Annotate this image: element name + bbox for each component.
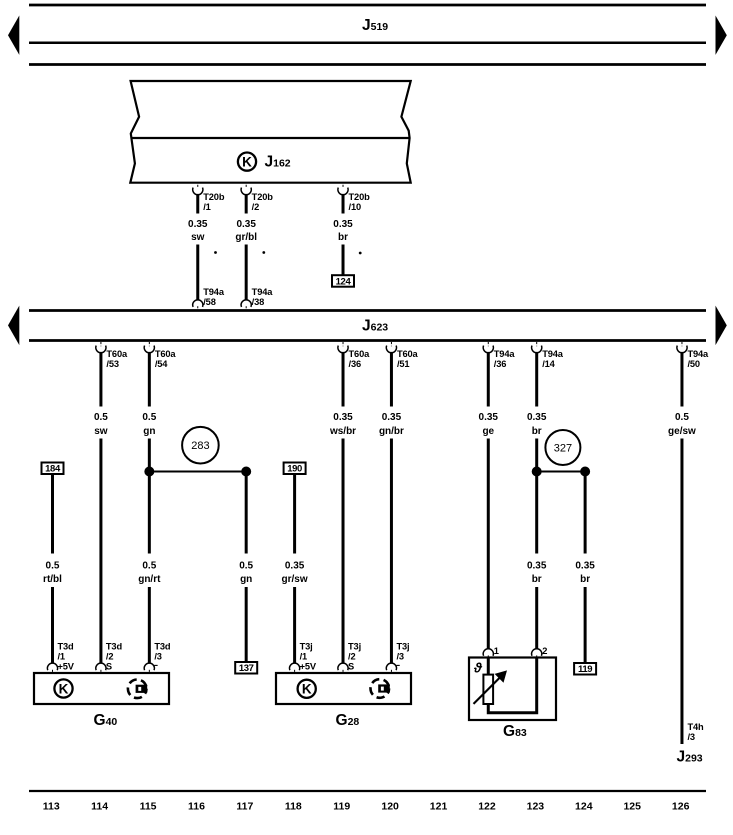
bus J519 top line xyxy=(29,4,706,7)
sensor box G83 xyxy=(469,658,556,721)
svg-text:0.5: 0.5 xyxy=(46,561,60,572)
label pin 2 xyxy=(542,646,547,656)
bus J623 top line xyxy=(29,309,706,312)
svg-text:gn/rt: gn/rt xyxy=(138,574,161,585)
svg-text:gn: gn xyxy=(240,574,252,585)
svg-text:116: 116 xyxy=(188,801,205,813)
wire spec 0.35 ge xyxy=(472,411,504,437)
connector T3d/2 at G40 xyxy=(96,663,106,672)
svg-text:T20b: T20b xyxy=(203,192,225,202)
label G40 xyxy=(94,712,118,729)
connector T3d/1 at G40 xyxy=(47,663,57,672)
wire spec 0.35 sw xyxy=(188,219,208,243)
svg-text:+5V: +5V xyxy=(300,661,317,671)
wire spec 0.35 ws/br xyxy=(327,411,359,437)
svg-text:0.35: 0.35 xyxy=(285,561,305,572)
svg-text:T60a: T60a xyxy=(349,349,371,359)
connector T60a/54 on J623 xyxy=(144,342,176,369)
svg-text:1: 1 xyxy=(494,646,499,656)
label T94a/38 xyxy=(252,287,274,307)
track numbers 113-126 xyxy=(43,801,690,813)
svg-text:gn: gn xyxy=(143,426,155,437)
wire 0.5 rt/bl segment B xyxy=(51,587,54,663)
svg-text:/53: /53 xyxy=(106,359,118,369)
svg-text:114: 114 xyxy=(91,801,108,813)
wire 0.35 sw lower segment xyxy=(196,245,199,301)
op symbol K in G40 xyxy=(54,679,72,697)
svg-text:0.5: 0.5 xyxy=(675,412,689,423)
connector T20b/1 at J162 xyxy=(193,185,203,195)
label T3d/1 +5V xyxy=(58,642,75,672)
svg-text:122: 122 xyxy=(478,801,496,813)
sensor box G40 xyxy=(34,673,169,704)
svg-text:br: br xyxy=(338,232,348,243)
svg-text:T4h: T4h xyxy=(687,722,704,732)
connector T94a/38 at J623 xyxy=(241,300,251,309)
temperature symbol theta xyxy=(473,661,483,676)
junction dot right (327) xyxy=(580,467,590,477)
connector pin2 at G83 xyxy=(532,649,542,657)
wire 0.35 gr/bl upper segment xyxy=(245,194,248,213)
svg-text:124: 124 xyxy=(336,276,352,287)
wire 0.35 br segment B xyxy=(535,439,538,472)
resistor in G83 xyxy=(483,675,493,704)
svg-text:0.5: 0.5 xyxy=(142,412,156,423)
ground connection box 137 xyxy=(235,662,257,674)
svg-text:2: 2 xyxy=(542,646,547,656)
svg-text:rt/bl: rt/bl xyxy=(43,574,62,585)
junction dot left (327) xyxy=(532,467,542,477)
label pin 1 xyxy=(494,646,499,656)
label T3d/2 S xyxy=(106,642,123,672)
wire 0.5 gn/rt segment B xyxy=(148,587,151,663)
svg-text:327: 327 xyxy=(554,443,572,455)
bottom rule xyxy=(29,790,706,792)
wire spec 0.35 br right xyxy=(569,559,601,585)
label T4h/3 xyxy=(687,722,704,742)
wire spec 0.5 gn/rt xyxy=(133,559,165,585)
wire 0.5 gn segment B xyxy=(148,439,151,472)
connector T20b/10 at J162 xyxy=(338,185,348,195)
svg-text:/3: /3 xyxy=(687,732,694,742)
svg-text:T94a: T94a xyxy=(494,349,516,359)
wire pin1 to resistor xyxy=(487,658,490,677)
wire 0.35 br segment F xyxy=(584,587,587,663)
svg-text:/58: /58 xyxy=(203,297,215,307)
ground connection box 124 xyxy=(332,275,354,287)
wire spec 0.5 gn xyxy=(133,411,165,437)
svg-text:T20b: T20b xyxy=(349,192,371,202)
left continuation arrow (J519) xyxy=(8,16,19,55)
sensor box G28 xyxy=(276,673,411,704)
wire 0.35 ws/br segment B xyxy=(342,439,345,664)
svg-text:S: S xyxy=(106,661,112,671)
svg-text:0.35: 0.35 xyxy=(236,219,256,230)
svg-text:ge/sw: ge/sw xyxy=(668,426,696,437)
svg-text:126: 126 xyxy=(672,801,690,813)
svg-text:0.5: 0.5 xyxy=(239,561,253,572)
svg-text:/3: /3 xyxy=(154,652,161,662)
connector pin1 at G83 xyxy=(483,649,493,657)
svg-text:gr/bl: gr/bl xyxy=(235,232,257,243)
label T20b/10 xyxy=(349,192,371,212)
wire 0.5 rt/bl segment A xyxy=(51,474,54,554)
label J162 xyxy=(265,153,291,170)
wire 0.35 gr/bl lower segment xyxy=(245,245,248,301)
junction wire (283) xyxy=(149,471,246,473)
connector T94a/14 on J623 xyxy=(532,342,564,369)
svg-text:0.35: 0.35 xyxy=(382,412,402,423)
svg-text:br: br xyxy=(580,574,590,585)
connector T94a/50 on J623 xyxy=(677,342,709,369)
wire 0.35 ws/br segment A xyxy=(342,352,345,406)
svg-text:ge: ge xyxy=(482,426,494,437)
wire spec 0.35 gn/br xyxy=(375,411,407,437)
svg-text:123: 123 xyxy=(527,801,545,813)
wire 0.35 sw upper segment xyxy=(196,194,199,213)
connector T60a/53 on J623 xyxy=(96,342,128,369)
wire 0.35 br segment D xyxy=(535,587,538,649)
svg-text:/36: /36 xyxy=(349,359,361,369)
svg-text:0.35: 0.35 xyxy=(575,561,595,572)
wire 0.35 ge segment B xyxy=(487,439,490,650)
connector T20b/2 at J162 xyxy=(241,185,251,195)
wire resistor to pin2 xyxy=(488,658,536,713)
svg-text:137: 137 xyxy=(239,663,254,674)
connector T60a/51 on J623 xyxy=(386,342,418,369)
sensor symbol in G28 xyxy=(371,679,390,698)
wire spec 0.5 rt/bl xyxy=(37,559,69,585)
wire spec 0.35 gr/sw xyxy=(279,559,311,585)
circle connection 283 xyxy=(182,427,219,464)
left continuation arrow (J623) xyxy=(8,306,19,346)
junction dot right (283) xyxy=(241,467,251,477)
svg-text:T3j: T3j xyxy=(348,642,361,652)
wire 0.35 br segment C xyxy=(535,472,538,554)
separator dot a xyxy=(214,251,217,254)
wire 0.5 gn segment A xyxy=(148,352,151,406)
control unit box J162 (torn-edge outline) xyxy=(130,81,410,183)
svg-text:115: 115 xyxy=(140,801,157,813)
wire 0.35 gr/sw segment B xyxy=(293,587,296,663)
svg-text:/36: /36 xyxy=(494,359,506,369)
svg-text:K: K xyxy=(242,155,252,170)
bus J623 bottom line xyxy=(29,339,706,342)
svg-text:+5V: +5V xyxy=(58,661,75,671)
svg-text:/2: /2 xyxy=(348,652,355,662)
label J623 xyxy=(362,318,388,335)
svg-text:T3d: T3d xyxy=(106,642,123,652)
label T3j/3 xyxy=(396,642,409,662)
svg-text:br: br xyxy=(532,574,542,585)
svg-text:124: 124 xyxy=(575,801,593,813)
wire 0.35 br segment A xyxy=(535,352,538,406)
svg-text:T3j: T3j xyxy=(300,642,313,652)
svg-text:T60a: T60a xyxy=(155,349,177,359)
svg-text:/14: /14 xyxy=(542,359,555,369)
wire spec 0.35 br xyxy=(333,219,353,243)
svg-text:118: 118 xyxy=(285,801,302,813)
wire 0.5 ge/sw segment A xyxy=(680,352,683,406)
svg-text:sw: sw xyxy=(191,232,205,243)
svg-text:gn/br: gn/br xyxy=(379,426,404,437)
wire 0.35 gn/br segment A xyxy=(390,352,393,406)
bus J519 bottom line xyxy=(29,63,706,66)
svg-text:/2: /2 xyxy=(106,652,113,662)
wire 0.5 gn segment C xyxy=(245,472,248,554)
svg-text:/1: /1 xyxy=(300,652,307,662)
wire spec 0.5 gn lower xyxy=(230,559,262,585)
wire 0.5 gn/rt segment A xyxy=(148,472,151,554)
op symbol K in J162 xyxy=(238,153,256,171)
svg-text:0.35: 0.35 xyxy=(188,219,208,230)
svg-text:117: 117 xyxy=(236,801,253,813)
svg-text:T20b: T20b xyxy=(252,192,274,202)
junction wire (327) xyxy=(537,471,585,473)
label T3j/1 +5V xyxy=(300,642,317,672)
op symbol K in G28 xyxy=(298,680,316,698)
sensor symbol in G40 xyxy=(128,680,147,699)
svg-text:T60a: T60a xyxy=(106,349,128,359)
bus J519 middle line xyxy=(29,41,706,44)
wire 0.35 gn/br segment B xyxy=(390,439,393,664)
svg-text:S: S xyxy=(348,661,354,671)
svg-text:/38: /38 xyxy=(252,297,264,307)
svg-text:0.5: 0.5 xyxy=(94,412,108,423)
svg-text:120: 120 xyxy=(381,801,399,813)
label T20b/1 xyxy=(203,192,225,212)
connection box 190 xyxy=(284,463,306,475)
svg-text:K: K xyxy=(302,682,312,697)
svg-text:119: 119 xyxy=(578,664,592,675)
svg-text:gr/sw: gr/sw xyxy=(282,574,308,585)
svg-text:121: 121 xyxy=(430,801,448,813)
svg-text:T94a: T94a xyxy=(252,287,274,297)
wire 0.5 gn segment D xyxy=(245,587,248,662)
label G28 xyxy=(336,712,360,729)
connector T94a/58 at J623 xyxy=(193,300,203,309)
wire spec 0.5 sw xyxy=(85,411,117,437)
wire spec 0.35 br mid xyxy=(521,559,553,585)
connector T94a/36 on J623 xyxy=(483,342,515,369)
svg-text:125: 125 xyxy=(623,801,641,813)
label J519 xyxy=(362,17,388,34)
svg-text:113: 113 xyxy=(43,801,60,813)
label T3d/3 xyxy=(154,642,171,662)
wire 0.35 br lower segment xyxy=(342,245,345,276)
svg-text:283: 283 xyxy=(191,440,209,452)
svg-text:T3d: T3d xyxy=(58,642,75,652)
label T3j/2 S xyxy=(348,642,361,672)
wire 0.35 gr/sw segment A xyxy=(293,474,296,554)
connector T3d/3 at G40 xyxy=(144,663,157,672)
wire 0.35 br upper segment xyxy=(342,194,345,213)
svg-text:ws/br: ws/br xyxy=(329,426,356,437)
svg-text:T3d: T3d xyxy=(154,642,171,652)
svg-text:/51: /51 xyxy=(397,359,409,369)
label G83 xyxy=(503,723,527,740)
svg-text:T3j: T3j xyxy=(396,642,409,652)
wire 0.5 sw segment B xyxy=(99,439,102,664)
svg-text:T60a: T60a xyxy=(397,349,419,359)
circle connection 327 xyxy=(545,430,580,465)
svg-text:/2: /2 xyxy=(252,202,259,212)
svg-text:K: K xyxy=(59,681,69,696)
svg-text:/1: /1 xyxy=(58,652,65,662)
svg-text:0.35: 0.35 xyxy=(333,412,353,423)
svg-text:/54: /54 xyxy=(155,359,168,369)
svg-text:0.35: 0.35 xyxy=(527,561,547,572)
label T94a/58 xyxy=(203,287,225,307)
connection box 184 xyxy=(42,463,64,475)
separator dot c xyxy=(359,252,362,255)
connector T60a/36 on J623 xyxy=(338,342,370,369)
variable arrow in G83 xyxy=(474,670,508,704)
connection box 119 xyxy=(574,663,596,675)
connector T3j/3 at G28 xyxy=(386,663,399,672)
wire 0.35 ge segment A xyxy=(487,352,490,406)
label J293 xyxy=(677,749,703,766)
svg-text:/50: /50 xyxy=(687,359,699,369)
svg-text:sw: sw xyxy=(94,426,108,437)
label T20b/2 xyxy=(252,192,274,212)
svg-text:190: 190 xyxy=(287,464,302,475)
svg-text:/3: /3 xyxy=(396,652,403,662)
svg-text:ϑ: ϑ xyxy=(473,661,483,676)
svg-text:0.35: 0.35 xyxy=(527,412,547,423)
wire spec 0.35 gr/bl xyxy=(235,219,257,243)
svg-text:/10: /10 xyxy=(349,202,361,212)
svg-text:T94a: T94a xyxy=(687,349,709,359)
right continuation arrow (J519) xyxy=(716,16,727,55)
svg-text:T94a: T94a xyxy=(542,349,564,359)
connector T3j/1 at G28 xyxy=(290,663,300,672)
separator dot b xyxy=(262,251,265,254)
svg-text:T94a: T94a xyxy=(203,287,225,297)
junction dot left (283) xyxy=(144,467,154,477)
svg-text:0.35: 0.35 xyxy=(479,412,499,423)
wire 0.5 ge/sw segment B xyxy=(680,439,683,745)
connector T3j/2 at G28 xyxy=(338,663,348,672)
svg-text:0.5: 0.5 xyxy=(142,561,156,572)
wire 0.35 br segment E xyxy=(584,472,587,554)
wire 0.5 sw segment A xyxy=(99,352,102,406)
svg-text:0.35: 0.35 xyxy=(333,219,353,230)
right continuation arrow (J623) xyxy=(716,306,727,346)
svg-text:br: br xyxy=(532,426,542,437)
svg-text:119: 119 xyxy=(333,801,350,813)
svg-text:184: 184 xyxy=(45,464,61,475)
svg-text:/1: /1 xyxy=(203,202,210,212)
wire spec 0.5 ge/sw xyxy=(666,411,698,437)
wire spec 0.35 br upper xyxy=(521,411,553,437)
